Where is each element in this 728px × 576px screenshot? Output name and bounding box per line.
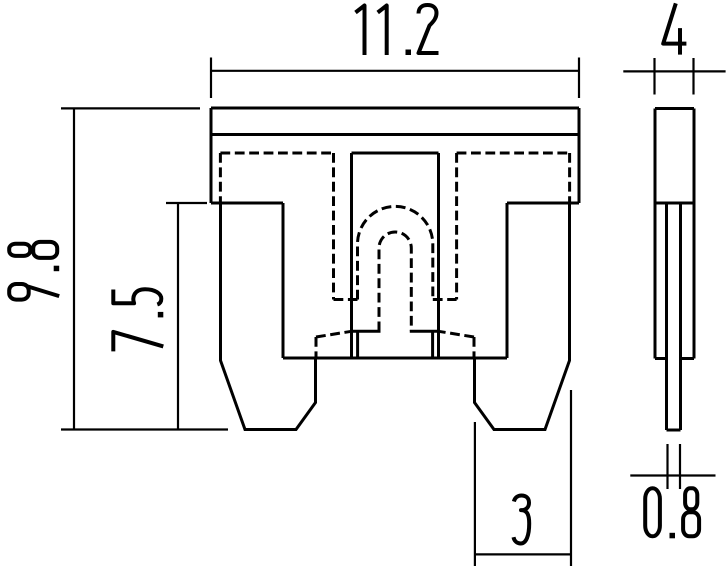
side view: housing bottom stubs: [655, 357, 694, 360]
dim 9.8 line: [73, 108, 75, 429]
fuse element inner U: [379, 232, 411, 331]
fuse front view: top cap: [211, 108, 579, 203]
fuse element outer U: [358, 206, 433, 299]
dimension label 4: [663, 3, 686, 54]
dimension label 9.8 (rotated): [9, 242, 59, 300]
dim 4 extension lines: [655, 58, 694, 95]
fuse front view: housing columns: [283, 203, 507, 358]
hidden right blade top: [439, 331, 475, 358]
fuse front view: central window tower: [352, 153, 439, 358]
dim 3 line: [475, 553, 571, 555]
fuse front view: bottom bar: [283, 357, 507, 360]
hidden right terminal plate: [433, 153, 570, 300]
dim 11.2 extension lines: [211, 58, 579, 99]
fuse front view: right leg blade: [475, 203, 570, 430]
dim 7.5 extension line: [166, 202, 207, 204]
dimension label 0.8: [645, 488, 699, 538]
dim 0.8 line: [630, 474, 715, 476]
dim 4 line: [623, 70, 725, 72]
hidden left blade top: [316, 331, 352, 358]
dimension label 3: [514, 496, 530, 544]
fuse front view: left leg blade: [221, 203, 316, 430]
fuse front view: blade edges below window: [358, 331, 433, 358]
side view: blade: [667, 204, 681, 431]
dimension label 7.5 (rotated): [113, 289, 163, 351]
fuse front view: window bottom steps: [352, 330, 439, 333]
dim 11.2 line: [211, 70, 579, 72]
side view: housing outline: [655, 109, 694, 359]
hidden left terminal plate: [220, 153, 357, 300]
fuse front view: shoulder steps: [211, 202, 579, 205]
dimension label 11.2: [356, 5, 439, 55]
dim 7.5 line: [177, 203, 179, 430]
dim 0.8 extension lines: [668, 444, 681, 489]
side view: cap step line: [655, 202, 694, 205]
dim 3 extension lines: [475, 390, 571, 566]
dim 9.8 extension lines: [61, 108, 228, 429]
